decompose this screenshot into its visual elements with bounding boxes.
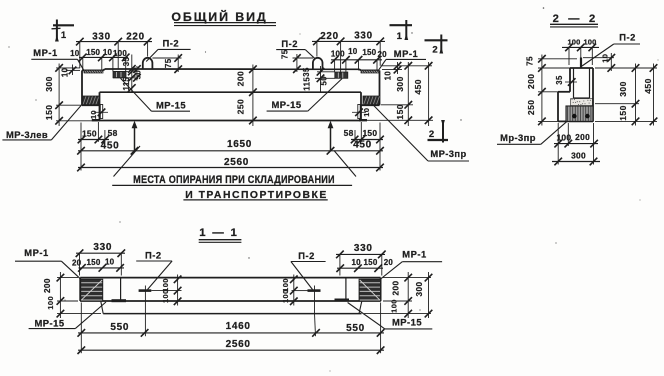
svg-text:10: 10 bbox=[601, 54, 610, 63]
svg-text:75: 75 bbox=[281, 49, 290, 59]
right haunch bottom bbox=[362, 104, 380, 106]
beam bottom edge bbox=[100, 120, 362, 122]
svg-text:1: 1 bbox=[397, 31, 403, 42]
svg-text:МР-3пр: МР-3пр bbox=[430, 148, 466, 159]
svg-text:П-2: П-2 bbox=[619, 32, 636, 43]
extension lines bottom left bbox=[81, 122, 105, 171]
П-2 mark left (plan) bbox=[139, 286, 152, 337]
right web edge bbox=[360, 92, 362, 120]
svg-text:10: 10 bbox=[351, 258, 361, 267]
callout МР-15 right (elevation) bbox=[267, 79, 342, 112]
svg-text:МЕСТА ОПИРАНИЯ ПРИ СКЛАДИРОВАН: МЕСТА ОПИРАНИЯ ПРИ СКЛАДИРОВАНИИ bbox=[133, 174, 335, 186]
center dimension 200 250 bbox=[236, 65, 257, 127]
svg-text:150: 150 bbox=[87, 258, 101, 267]
callout МР-1 left (plan) bbox=[15, 247, 80, 279]
element МР-1 left (hatched square) bbox=[81, 279, 103, 301]
element МР-1 right (hatched square) bbox=[359, 279, 381, 301]
svg-text:П-2: П-2 bbox=[298, 250, 315, 261]
dimension 330/220 left bbox=[76, 32, 152, 69]
svg-text:200: 200 bbox=[575, 132, 590, 142]
dimension 20 150 10 (plan left) bbox=[72, 258, 124, 272]
embedded element МР-3пр (dark block) bbox=[363, 96, 379, 105]
section right dimension 450 bbox=[643, 64, 657, 126]
svg-text:100: 100 bbox=[281, 289, 290, 303]
callout МР-3пр (elevation) bbox=[372, 104, 469, 161]
svg-text:МР-3лев: МР-3лев bbox=[6, 129, 48, 140]
embedded element МР-3лев (dark block) bbox=[82, 96, 98, 105]
svg-text:150: 150 bbox=[44, 105, 54, 121]
svg-text:2: 2 bbox=[432, 45, 437, 56]
dimension 220/330 right bbox=[312, 31, 385, 75]
dimension 35 50 115 right bbox=[302, 66, 335, 92]
dimension 100 100 П-2 right (plan) bbox=[281, 275, 307, 306]
beam top edge bbox=[82, 69, 380, 70]
svg-text:330: 330 bbox=[93, 242, 112, 253]
svg-text:300: 300 bbox=[571, 150, 586, 160]
svg-text:150: 150 bbox=[82, 129, 97, 139]
dimension 450 1650 450 bbox=[77, 139, 384, 155]
plan ledge line bbox=[101, 301, 362, 313]
П-2 mark right (plan) bbox=[308, 286, 321, 337]
callout П-2 right (elevation) bbox=[276, 38, 314, 58]
plan mid line bbox=[80, 300, 380, 302]
callout МР-15 left (plan) bbox=[29, 302, 106, 329]
section left dimension 75 200 250 bbox=[526, 55, 578, 126]
svg-text:100: 100 bbox=[113, 49, 127, 58]
trough inner walls bbox=[574, 68, 590, 98]
svg-text:100: 100 bbox=[46, 296, 55, 310]
embedded plate МР-1 right (hatched strip) bbox=[361, 70, 379, 73]
svg-text:10: 10 bbox=[105, 258, 115, 267]
plan top edge bbox=[80, 277, 380, 279]
svg-text:115: 115 bbox=[302, 77, 311, 91]
section right dimension 10 bbox=[583, 53, 615, 72]
left web edge bbox=[99, 92, 101, 120]
section bottom dimension 300 bbox=[552, 150, 600, 165]
svg-text:П-2: П-2 bbox=[145, 249, 162, 260]
svg-text:МР-15: МР-15 bbox=[34, 317, 64, 328]
note text line 2 bbox=[183, 190, 327, 201]
svg-text:2 — 2: 2 — 2 bbox=[553, 13, 599, 25]
dimension 10 150 20 (plan right) bbox=[336, 258, 393, 272]
dimension 20 150 10 100 left bbox=[70, 48, 129, 72]
svg-text:МР-1: МР-1 bbox=[24, 247, 48, 258]
svg-text:10: 10 bbox=[362, 108, 371, 117]
svg-text:100: 100 bbox=[556, 133, 571, 143]
svg-text:10: 10 bbox=[89, 110, 98, 119]
svg-text:100: 100 bbox=[567, 38, 580, 47]
svg-text:300: 300 bbox=[618, 81, 628, 97]
callout П-2 left bbox=[146, 37, 190, 61]
end plate left (thin) bbox=[100, 105, 102, 119]
trough mortar bed (speckled) bbox=[571, 99, 593, 106]
svg-text:МР-15: МР-15 bbox=[156, 99, 186, 110]
plate П-2 left (dark) bbox=[113, 72, 126, 78]
svg-text:35: 35 bbox=[302, 67, 311, 77]
plate dimension 10 left bbox=[89, 109, 108, 120]
dimension 150 58 left bbox=[78, 128, 118, 143]
callout П-2 (section) bbox=[582, 32, 640, 66]
svg-text:150: 150 bbox=[362, 128, 377, 138]
svg-text:МР-1: МР-1 bbox=[33, 47, 57, 58]
ledge line bbox=[100, 91, 362, 93]
svg-text:2560: 2560 bbox=[224, 157, 249, 168]
plan right end edge bbox=[380, 278, 382, 301]
svg-text:МР-15: МР-15 bbox=[392, 317, 422, 328]
svg-text:МР-1: МР-1 bbox=[402, 248, 426, 259]
callout МР-1 right (elevation) bbox=[379, 48, 426, 70]
svg-text:10: 10 bbox=[61, 67, 70, 77]
right side dimension 10 300 450 150 bbox=[363, 62, 433, 126]
svg-text:75: 75 bbox=[526, 56, 535, 66]
svg-text:100: 100 bbox=[161, 289, 170, 303]
svg-text:330: 330 bbox=[354, 31, 372, 42]
dimension 550 1460 550 (plan) bbox=[78, 321, 385, 337]
svg-text:550: 550 bbox=[110, 322, 129, 333]
svg-text:Мр-3пр: Мр-3пр bbox=[500, 132, 536, 143]
svg-text:10: 10 bbox=[70, 49, 80, 58]
svg-text:10: 10 bbox=[384, 71, 393, 81]
svg-text:58: 58 bbox=[108, 128, 118, 138]
svg-text:250: 250 bbox=[236, 99, 246, 115]
svg-text:35: 35 bbox=[122, 57, 131, 67]
support arrow left bbox=[114, 121, 141, 177]
embedded plate МР-1 left (hatched strip) bbox=[84, 70, 103, 73]
loop П-2 left bbox=[143, 58, 153, 69]
svg-text:450: 450 bbox=[353, 140, 372, 151]
svg-text:ОБЩИЙ ВИД: ОБЩИЙ ВИД bbox=[171, 9, 267, 24]
note text line 1 bbox=[112, 174, 352, 186]
svg-text:20: 20 bbox=[384, 258, 394, 267]
left haunch bottom bbox=[82, 104, 100, 106]
section mark 2 lower bbox=[428, 120, 449, 143]
svg-text:330: 330 bbox=[354, 243, 373, 254]
svg-text:МР-15: МР-15 bbox=[271, 99, 301, 110]
callout МР-1 right (plan) bbox=[381, 248, 442, 279]
dimension 330 left (plan) bbox=[76, 242, 125, 275]
callout П-2 right (plan) bbox=[291, 250, 326, 290]
svg-text:150: 150 bbox=[86, 48, 100, 57]
svg-text:35: 35 bbox=[555, 75, 564, 85]
plan left dimension 200 100 bbox=[43, 272, 101, 318]
element МР-3пр in section (hatched block) bbox=[566, 106, 593, 121]
svg-text:450: 450 bbox=[101, 140, 120, 151]
dimension 35 50 115 left bbox=[113, 55, 142, 93]
svg-text:10: 10 bbox=[348, 47, 358, 56]
section bottom dimension 100 200 bbox=[554, 123, 598, 165]
dimension 75 left bbox=[152, 54, 182, 73]
svg-text:250: 250 bbox=[526, 100, 536, 116]
svg-text:450: 450 bbox=[413, 79, 423, 95]
svg-text:1650: 1650 bbox=[227, 139, 252, 150]
svg-text:200: 200 bbox=[236, 71, 246, 87]
svg-text:П-2: П-2 bbox=[163, 37, 180, 48]
svg-text:1 — 1: 1 — 1 bbox=[199, 227, 238, 239]
plan right dimension 200 100 300 bbox=[364, 272, 432, 318]
section right dimension 300 150 bbox=[595, 64, 657, 126]
callout МР-15 left (elevation) bbox=[121, 78, 191, 111]
svg-text:220: 220 bbox=[126, 32, 144, 43]
svg-text:75: 75 bbox=[164, 58, 173, 68]
callout МР-3лев bbox=[2, 104, 82, 140]
dimension 330 right (plan) bbox=[336, 243, 386, 276]
svg-text:450: 450 bbox=[643, 78, 653, 94]
callout МР-1 left bbox=[31, 47, 83, 70]
section mark 1 left bbox=[52, 20, 75, 42]
svg-text:200: 200 bbox=[526, 74, 536, 90]
dimension 58 150 right bbox=[344, 128, 384, 143]
svg-text:50: 50 bbox=[133, 70, 142, 80]
svg-text:330: 330 bbox=[92, 32, 110, 43]
bottom plate mark right bbox=[359, 119, 367, 121]
svg-text:И ТРАНСПОРТИРОВКЕ: И ТРАНСПОРТИРОВКЕ bbox=[185, 190, 328, 201]
svg-text:100: 100 bbox=[583, 38, 596, 47]
section mark 1 right bbox=[390, 20, 413, 42]
section wall dimension 35 bbox=[555, 75, 577, 86]
section mark 2 upper bbox=[425, 35, 448, 56]
svg-text:150: 150 bbox=[618, 105, 628, 121]
plate МР-15 right (plan) bbox=[335, 299, 350, 302]
svg-text:1: 1 bbox=[61, 30, 67, 41]
svg-text:220: 220 bbox=[320, 31, 338, 42]
svg-text:150: 150 bbox=[362, 48, 376, 57]
svg-text:П-2: П-2 bbox=[281, 38, 298, 49]
svg-text:100: 100 bbox=[390, 299, 399, 313]
svg-text:2560: 2560 bbox=[226, 339, 251, 350]
end plate right (thin) bbox=[358, 105, 360, 119]
beam left end edge bbox=[81, 70, 83, 105]
svg-text:МР-1: МР-1 bbox=[394, 48, 418, 59]
plan inner line left bbox=[120, 278, 122, 301]
title 1-1 bbox=[199, 227, 242, 243]
svg-text:300: 300 bbox=[415, 282, 424, 297]
svg-text:150: 150 bbox=[395, 104, 405, 120]
dimension 100 100 (section top) bbox=[562, 38, 599, 65]
callout Мр-3пр (section) bbox=[497, 122, 567, 145]
plan left end edge bbox=[79, 278, 81, 301]
svg-text:50: 50 bbox=[320, 76, 329, 86]
svg-text:20: 20 bbox=[72, 258, 82, 267]
svg-text:20: 20 bbox=[378, 50, 388, 59]
plan inner line right bbox=[345, 278, 347, 301]
svg-text:1460: 1460 bbox=[226, 321, 251, 332]
title ОБЩИЙ ВИД bbox=[171, 9, 276, 26]
bottom plate mark left bbox=[92, 119, 100, 121]
dimension 2560 (plan) bbox=[78, 339, 385, 354]
left side dimension 10 300 150 bbox=[44, 64, 100, 127]
title 2-2 bbox=[550, 13, 598, 27]
svg-text:100: 100 bbox=[331, 49, 345, 58]
svg-text:10: 10 bbox=[103, 48, 113, 57]
support arrow right bbox=[328, 121, 356, 177]
plate П-2 right (dark) bbox=[335, 72, 348, 78]
dimension 100 100 П-2 left (plan) bbox=[151, 275, 181, 306]
svg-text:300: 300 bbox=[44, 76, 54, 92]
svg-text:200: 200 bbox=[392, 281, 401, 296]
dimension 2560 (elevation) bbox=[77, 157, 384, 171]
callout П-2 left (plan) bbox=[136, 249, 172, 289]
callout МР-15 right (plan) bbox=[348, 303, 433, 329]
plate dimension 10 right bbox=[352, 108, 371, 117]
beam right end edge bbox=[379, 70, 381, 105]
plan bottom extension lines bbox=[81, 303, 380, 354]
svg-text:2: 2 bbox=[429, 129, 434, 140]
loop П-2 right bbox=[313, 58, 323, 69]
П-2 wire in section bbox=[580, 58, 582, 69]
svg-text:200: 200 bbox=[43, 278, 52, 293]
svg-text:550: 550 bbox=[346, 323, 365, 334]
svg-text:300: 300 bbox=[395, 76, 405, 92]
section outline bbox=[558, 68, 593, 121]
extension lines bottom right bbox=[355, 122, 380, 171]
svg-text:58: 58 bbox=[344, 128, 354, 138]
plate МР-15 left (plan) bbox=[112, 299, 127, 302]
dimension 75 right bbox=[281, 49, 313, 73]
dimension 100 10 150 20 right bbox=[331, 47, 387, 72]
svg-text:150: 150 bbox=[364, 258, 378, 267]
